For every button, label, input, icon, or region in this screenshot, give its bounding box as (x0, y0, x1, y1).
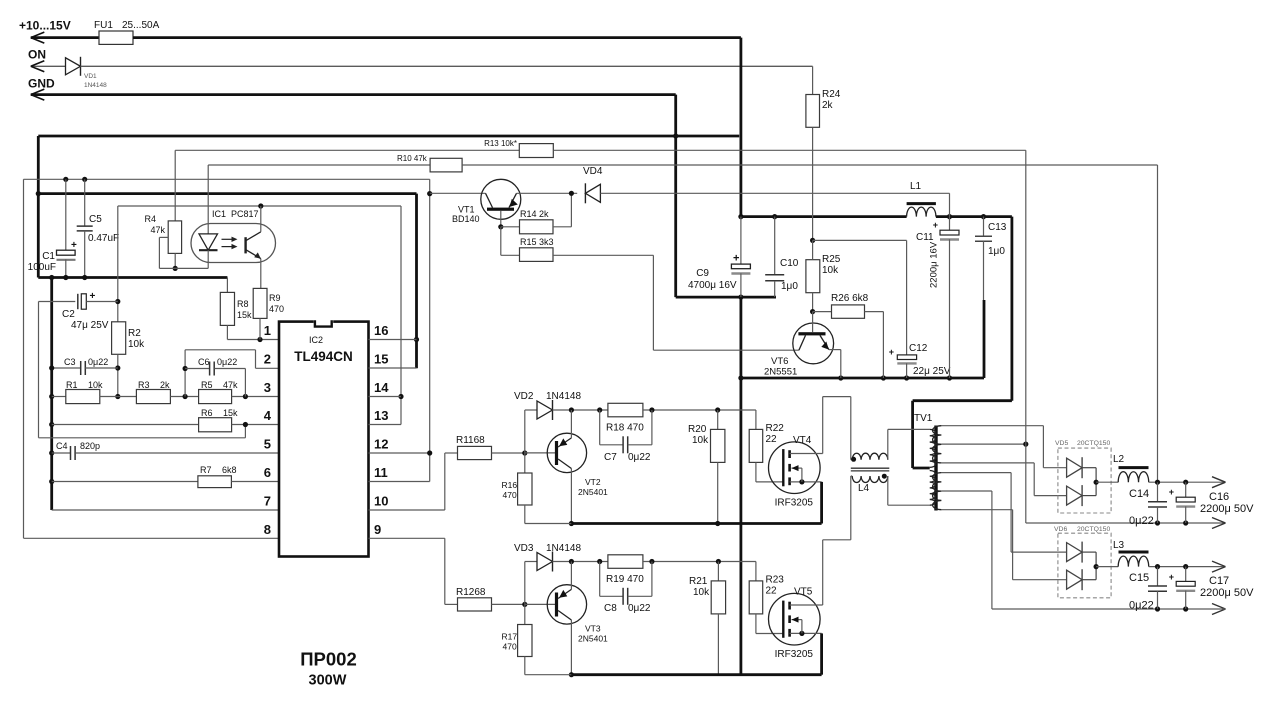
svg-text:1: 1 (264, 323, 271, 338)
svg-text:3: 3 (264, 380, 271, 395)
svg-text:TL494CN: TL494CN (294, 349, 353, 364)
svg-text:47k: 47k (150, 225, 165, 235)
svg-text:0.47uF: 0.47uF (88, 233, 119, 244)
svg-text:10k: 10k (693, 587, 710, 598)
svg-text:VT6: VT6 (771, 356, 788, 367)
svg-text:14: 14 (374, 380, 389, 395)
svg-text:6k8: 6k8 (222, 465, 237, 475)
svg-text:10k: 10k (822, 265, 839, 276)
svg-text:2N5401: 2N5401 (578, 634, 608, 644)
svg-text:1N4148: 1N4148 (84, 82, 107, 89)
svg-text:13: 13 (374, 408, 388, 423)
svg-text:470: 470 (269, 304, 284, 314)
svg-text:R8: R8 (237, 299, 249, 309)
svg-text:0μ22: 0μ22 (628, 603, 651, 614)
svg-text:BD140: BD140 (452, 214, 480, 224)
svg-text:R13 10k*: R13 10k* (484, 139, 517, 148)
svg-text:R25: R25 (822, 254, 841, 265)
svg-text:10k: 10k (88, 380, 103, 390)
svg-text:ПР002: ПР002 (300, 649, 357, 670)
svg-text:0μ22: 0μ22 (1129, 600, 1154, 612)
svg-text:PC817: PC817 (231, 209, 259, 219)
svg-text:+: + (889, 347, 894, 357)
svg-text:2N5551: 2N5551 (764, 367, 797, 378)
svg-text:FU1: FU1 (94, 20, 113, 31)
svg-text:VT2: VT2 (585, 477, 601, 487)
svg-text:22: 22 (766, 586, 778, 597)
svg-text:1μ0: 1μ0 (988, 246, 1005, 257)
svg-text:22: 22 (766, 434, 778, 445)
svg-text:R1: R1 (66, 380, 78, 390)
svg-text:VD1: VD1 (84, 73, 97, 80)
svg-text:+: + (733, 253, 739, 265)
svg-text:12: 12 (374, 437, 388, 452)
svg-text:R21: R21 (689, 576, 708, 587)
svg-text:4700μ 16V: 4700μ 16V (688, 280, 737, 291)
svg-text:C13: C13 (988, 222, 1007, 233)
svg-text:0μ22: 0μ22 (217, 357, 237, 367)
svg-text:C11: C11 (916, 232, 934, 243)
svg-text:22μ 25V: 22μ 25V (913, 366, 951, 377)
svg-text:16: 16 (374, 323, 388, 338)
svg-text:R17: R17 (502, 632, 518, 642)
svg-text:C17: C17 (1209, 575, 1229, 587)
svg-text:R19 470: R19 470 (606, 574, 644, 585)
svg-text:2200μ 16V: 2200μ 16V (929, 241, 940, 288)
svg-text:C2: C2 (62, 309, 75, 320)
svg-text:L3: L3 (1113, 540, 1125, 551)
svg-text:C5: C5 (89, 214, 102, 225)
svg-text:C6: C6 (198, 357, 210, 367)
svg-text:C15: C15 (1129, 572, 1149, 584)
svg-text:0μ22: 0μ22 (88, 357, 108, 367)
svg-text:R26 6k8: R26 6k8 (831, 293, 869, 304)
svg-text:R14 2k: R14 2k (520, 209, 549, 219)
svg-text:R23: R23 (766, 575, 785, 586)
svg-text:VT5: VT5 (794, 587, 813, 598)
svg-text:R5: R5 (201, 380, 213, 390)
svg-text:C10: C10 (780, 258, 799, 269)
svg-text:C9: C9 (696, 268, 709, 279)
svg-text:IC1: IC1 (212, 209, 226, 219)
svg-text:VT3: VT3 (585, 624, 601, 634)
svg-text:300W: 300W (309, 673, 347, 689)
svg-text:6: 6 (264, 465, 271, 480)
svg-text:IC2: IC2 (309, 335, 323, 345)
svg-text:9: 9 (374, 522, 381, 537)
svg-text:R20: R20 (688, 424, 707, 435)
svg-text:VD2: VD2 (514, 391, 534, 402)
svg-text:+: + (71, 240, 77, 251)
svg-text:R10 47k: R10 47k (397, 154, 428, 163)
svg-text:10k: 10k (128, 339, 145, 350)
svg-text:10: 10 (374, 494, 388, 509)
svg-text:15k: 15k (237, 310, 252, 320)
svg-text:C12: C12 (909, 343, 928, 354)
svg-text:47k: 47k (223, 380, 238, 390)
svg-text:VD4: VD4 (583, 166, 603, 177)
svg-text:R7: R7 (200, 465, 212, 475)
svg-text:25...50A: 25...50A (122, 20, 160, 31)
svg-text:+: + (1169, 572, 1174, 582)
svg-text:2: 2 (264, 352, 271, 367)
svg-text:0μ22: 0μ22 (1129, 515, 1154, 527)
svg-text:R15 3k3: R15 3k3 (520, 237, 554, 247)
svg-text:R6: R6 (201, 408, 213, 418)
svg-text:R1168: R1168 (456, 435, 485, 446)
svg-text:2N5401: 2N5401 (578, 487, 608, 497)
svg-text:C7: C7 (604, 452, 617, 463)
svg-text:VT1: VT1 (458, 205, 475, 215)
svg-text:+: + (933, 220, 938, 230)
svg-text:+10...15V: +10...15V (19, 19, 71, 33)
svg-text:1N4148: 1N4148 (546, 543, 581, 554)
svg-text:4: 4 (264, 408, 272, 423)
svg-text:+: + (1169, 487, 1174, 497)
svg-text:2200μ 50V: 2200μ 50V (1200, 587, 1254, 599)
svg-text:GND: GND (28, 77, 55, 91)
svg-text:R16: R16 (502, 480, 518, 490)
svg-text:470: 470 (503, 490, 517, 500)
svg-text:1μ0: 1μ0 (781, 281, 798, 292)
svg-text:0μ22: 0μ22 (628, 452, 651, 463)
svg-text:+: + (90, 291, 96, 302)
svg-text:C8: C8 (604, 603, 617, 614)
svg-text:R3: R3 (138, 380, 150, 390)
svg-text:IRF3205: IRF3205 (775, 498, 814, 509)
svg-text:11: 11 (374, 465, 388, 480)
svg-text:L1: L1 (910, 181, 922, 192)
svg-text:47μ 25V: 47μ 25V (71, 320, 109, 331)
svg-text:15k: 15k (223, 408, 238, 418)
svg-text:VD6: VD6 (1054, 526, 1067, 533)
svg-text:15: 15 (374, 352, 388, 367)
svg-text:5: 5 (264, 437, 271, 452)
svg-text:2200μ 50V: 2200μ 50V (1200, 503, 1254, 515)
svg-text:470: 470 (503, 642, 517, 652)
svg-text:7: 7 (264, 494, 271, 509)
svg-text:100uF: 100uF (28, 262, 56, 273)
svg-text:10k: 10k (692, 435, 709, 446)
svg-text:R2: R2 (128, 328, 141, 339)
svg-text:VD3: VD3 (514, 543, 534, 554)
svg-text:20CTQ150: 20CTQ150 (1077, 440, 1110, 447)
svg-text:20CTQ150: 20CTQ150 (1077, 526, 1110, 533)
svg-text:R18 470: R18 470 (606, 423, 644, 434)
svg-text:1N4148: 1N4148 (546, 391, 581, 402)
svg-text:ON: ON (28, 48, 46, 62)
svg-text:R1268: R1268 (456, 587, 486, 598)
svg-text:R4: R4 (144, 214, 156, 224)
svg-text:8: 8 (264, 522, 271, 537)
svg-text:C14: C14 (1129, 488, 1149, 500)
svg-text:IRF3205: IRF3205 (775, 649, 814, 660)
svg-text:L2: L2 (1113, 454, 1125, 465)
svg-text:C1: C1 (42, 251, 55, 262)
svg-text:R24: R24 (822, 89, 841, 100)
svg-text:C16: C16 (1209, 491, 1229, 503)
svg-text:820p: 820p (80, 441, 100, 451)
svg-text:R22: R22 (766, 423, 785, 434)
svg-text:L4: L4 (858, 483, 870, 494)
svg-text:2k: 2k (822, 100, 834, 111)
svg-text:TV1: TV1 (914, 413, 933, 424)
svg-text:C4: C4 (56, 441, 68, 451)
svg-text:VD5: VD5 (1055, 440, 1068, 447)
svg-text:C3: C3 (64, 357, 76, 367)
svg-text:VT4: VT4 (793, 435, 812, 446)
svg-text:R9: R9 (269, 293, 281, 303)
svg-text:2k: 2k (160, 380, 170, 390)
